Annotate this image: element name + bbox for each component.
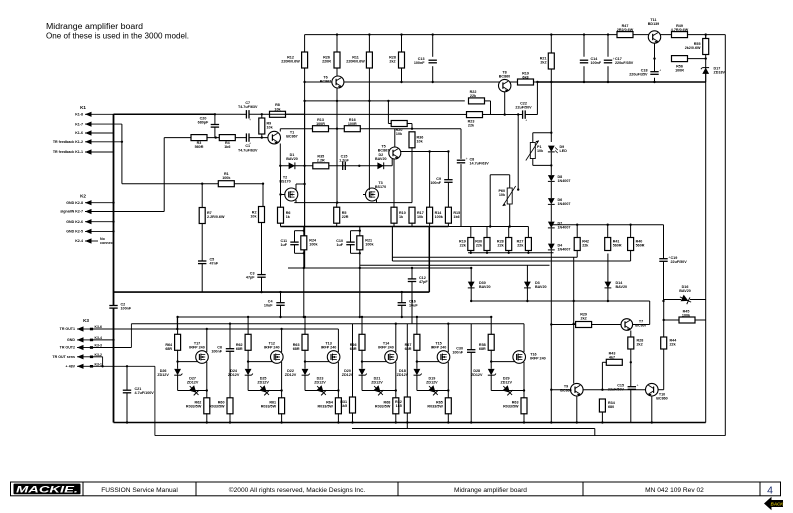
label R19 value [459,240,467,248]
svg-text:IRFP 240: IRFP 240 [431,345,447,349]
node node R66 rail [361,316,363,318]
transistor T3 [366,188,379,201]
label T17 type [189,341,205,349]
wire C17 bot [607,66,609,82]
wire right supply rail [705,35,707,423]
wire R26 top [336,35,338,53]
resistor R21 [548,53,554,69]
svg-text:22k: 22k [460,244,467,248]
node node R62 bus [206,421,208,423]
wire C21 vert [126,366,128,390]
resistor R60 [227,398,233,414]
label R30 value [475,240,483,248]
svg-text:100nF: 100nF [121,307,132,311]
wire C10 bot link [351,252,360,254]
node node R55 bot [705,57,707,59]
node node y101 a [303,100,305,102]
svg-text:K3-4: K3-4 [95,336,102,340]
svg-text:R033/5W: R033/5W [209,405,225,409]
wire P60 top h [490,174,510,176]
svg-text:220uF/35V: 220uF/35V [615,61,634,65]
label R21b value [365,239,374,247]
wire chain seg5 [550,251,552,423]
wire R55 top [705,35,707,39]
label K3 pin text TR OUT1 [60,327,75,331]
label R43 value [609,352,616,360]
svg-text:680: 680 [608,405,614,409]
node node T12 sr [280,389,282,391]
svg-text:IRFP 240: IRFP 240 [189,345,205,349]
wire group top line [448,226,528,228]
node node R67 rail [416,316,418,318]
node node R21 bot [359,252,361,254]
pin K3 stub K3-3 [90,346,93,349]
pin K3 TR OUT2 [77,345,92,350]
label R19 value [522,72,529,80]
wire D24 stem [247,362,249,369]
node node T17 gate [176,360,178,362]
wire R5 top [336,203,338,208]
wire mid bus riser [428,227,430,293]
wire R31 bot [352,413,354,423]
node node R31 bus [351,421,353,423]
wire R43 left [602,361,606,363]
label R35 value [317,155,325,163]
node node T15 sr [447,389,449,391]
svg-text:BC867: BC867 [320,80,331,84]
node bus node R55 [705,33,707,35]
diode D1 [289,162,295,169]
wire R24 main vert upper [303,227,305,236]
node gnd node K2-5 [112,230,114,232]
wire D3 vert [526,265,528,301]
title text [46,22,143,31]
wire P60 top v [509,175,511,188]
wire line y152 [401,151,449,153]
node node y152 a [428,150,430,152]
svg-text:4.7R/0.6W: 4.7R/0.6W [671,28,689,32]
wire R27 top [527,227,529,238]
label K3 pin text GND [67,338,75,342]
label C13 value [414,57,425,65]
svg-text:ZD12V: ZD12V [371,380,383,384]
wire R20 vert [387,101,389,124]
label P1 value [537,145,544,153]
resistor R17 [409,207,415,223]
node node R21 fb [359,267,361,269]
node node R65 bus [447,421,449,423]
node node R21 top [359,230,361,232]
capacitor C30 [467,350,475,353]
wire left vertical bus lower [113,308,115,422]
capacitor C20 [211,125,219,128]
wire R11 drop [368,68,370,191]
wire T5 bot [391,159,393,166]
wire T1 emitter [279,144,281,166]
node node T9 y3237 [573,323,575,325]
diode D19 [426,383,440,397]
wire C10 top link [351,230,360,232]
wire R21 main vert lower [359,250,361,317]
svg-text:BAV20: BAV20 [286,157,298,161]
svg-text:K3-3: K3-3 [95,344,102,348]
node bus node R28 [400,33,402,35]
resistor R34 [599,399,605,412]
resistor R47 [617,32,633,38]
resistor R62 [245,334,251,350]
svg-text:220R/0.6W: 220R/0.6W [346,60,365,64]
footer divider [582,482,584,496]
capacitor C4 [276,303,284,306]
svg-text:T4.7uF/63V: T4.7uF/63V [238,148,258,152]
svg-text:BAV20: BAV20 [679,289,691,293]
resistor R3 [191,135,207,141]
svg-text:1N4007: 1N4007 [558,179,571,183]
node node T12 gate [247,360,249,362]
wire D28 bot [490,375,492,390]
wire chain top [550,82,552,142]
wire C11 bot link [295,252,304,254]
wire rail A y317 [177,316,491,318]
wire D20 bot [361,375,363,390]
node node y82 C17 [607,81,609,83]
wire T1e drop [280,166,282,195]
diode D22 [302,369,310,375]
pin K3 stub K3-2 [90,356,93,359]
wire x3046 lower [304,101,306,268]
label C3 value [246,272,255,280]
svg-text:T4.7uF/63V: T4.7uF/63V [238,105,258,109]
wire C20 branch lower [214,127,216,137]
svg-text:2k2: 2k2 [540,61,546,65]
footer divider [397,482,399,496]
node node TROUT1 riser [176,328,178,330]
label K3 pin text + 48V [66,365,76,369]
node node D1 left [279,165,281,167]
svg-text:1uF: 1uF [280,243,287,247]
label T3 type [375,181,386,189]
svg-text:10k: 10k [417,140,424,144]
diode D29 [501,383,515,397]
wire D16 right [690,299,706,301]
label C16 value [409,300,418,308]
label R60 value [209,401,225,409]
resistor R66 [359,334,365,350]
node bus node R26 [336,33,338,35]
label D24 value [228,369,240,377]
wire R32 vert [406,324,408,398]
diode D8 [548,175,555,181]
wire C14 bot [583,66,585,82]
label C7 value [238,101,258,109]
wire TR OUT1 line [92,328,178,330]
svg-text:22k: 22k [670,343,677,347]
wire rail C corner T13 drain [337,329,339,352]
svg-text:100R: 100R [348,122,357,126]
pin K3 TR OUT sens [77,354,92,359]
label R45 value [682,310,691,318]
wire R26 drop [336,68,338,77]
wire K3 sense row [92,356,103,358]
capacitor C3 [257,275,265,278]
svg-text:100R: 100R [675,69,684,73]
label C12 value [419,276,428,284]
svg-text:BAV20: BAV20 [375,157,387,161]
node node R63 rail [304,316,306,318]
capacitor C16 [398,303,406,306]
svg-text:K3-2: K3-2 [95,353,102,357]
node node R34 bus [601,421,603,423]
svg-text:100nF: 100nF [430,181,441,185]
wire R63 top [304,317,306,335]
label T9 type [560,385,571,393]
label R22 value [470,90,477,98]
wire K1-7 drop [121,124,123,184]
wire C8 drop upper [460,129,462,159]
label T2 type [279,176,290,184]
wire T7 collector h [633,324,650,326]
wire R31 vert [352,324,354,398]
wire +48V feed [92,365,155,367]
svg-text:47pF: 47pF [246,276,255,280]
wire R28 top [401,35,403,53]
wire R62 gate v [247,350,249,362]
resistor R19 [518,79,534,85]
wire D26 stem [177,362,179,369]
wire T9 line [583,389,646,391]
svg-text:GND: GND [67,338,75,342]
wire D14 vert [607,254,609,302]
svg-text:R033/5W: R033/5W [261,405,277,409]
svg-text:1k6: 1k6 [224,145,230,149]
resistor R28 [506,238,512,251]
svg-text:68R: 68R [236,347,243,351]
label R4 value [224,141,230,149]
node node D30 rail [470,300,472,302]
label K2-4 no connect note [100,237,115,245]
potentiometer P60 [503,186,516,206]
svg-text:10k: 10k [274,107,281,111]
node node y1658 mid [358,165,360,167]
wire R5 bot [336,223,338,227]
label R28 value [497,240,505,248]
MACKIE logo [14,484,81,496]
svg-text:K3-6: K3-6 [95,325,102,329]
svg-text:GND K2-6: GND K2-6 [66,220,83,224]
node node R68 bus [395,421,397,423]
svg-text:100R: 100R [316,122,325,126]
node node R3R4 [215,136,217,138]
wire R15 vert lower [447,183,449,208]
svg-text:K2: K2 [80,194,86,199]
wire fb line y2652 [360,264,550,266]
node node T10 bus [651,421,653,423]
label C14 value [591,57,602,65]
node node T15 drain [447,323,449,325]
node node R24 bot [303,252,305,254]
transistor T17 [196,351,209,364]
label D8 value [558,175,571,183]
diode D2 [377,162,383,169]
wire R10 bot [393,223,395,227]
node node R9 top [261,113,263,115]
resistor R30 [484,238,490,251]
label R61s value [261,401,277,409]
svg-text:100nF: 100nF [452,351,463,355]
label C4 value [264,300,274,308]
svg-text:MACKIE.: MACKIE. [16,485,78,496]
label C10 value [336,239,344,247]
label R11 value [346,56,365,64]
wire C16 stem lower [401,306,403,317]
svg-text:R033/5W: R033/5W [318,405,334,409]
node node T2 gate [279,193,281,195]
wire T11 emitter [654,43,656,71]
transistor T2 [285,188,298,201]
node node R32 bus [406,421,408,423]
capacitor C19 [659,256,670,262]
label R55 value [685,42,701,50]
node node T16 gate [490,360,492,362]
capacitor C15 [343,162,346,170]
wire line y101 [305,100,465,102]
wire line y1146 b [249,113,522,115]
svg-text:10uF: 10uF [264,304,273,308]
wire D24 bot [247,375,249,390]
wire input line b [249,137,268,139]
wire C17 drop [607,35,609,57]
wire R66 top [361,317,363,335]
resistor R7 [199,208,205,224]
transistor T15 [437,351,450,364]
node node fb [121,141,123,143]
wire T10 right [658,389,664,391]
label R2 value [250,211,257,219]
transistor T13 [327,351,340,364]
svg-text:100k: 100k [222,176,231,180]
connector K3 [83,318,89,323]
node node R24 top [303,230,305,232]
wire R9 bot [261,134,263,138]
svg-text:22k: 22k [498,244,505,248]
wire R9 top [261,114,263,118]
label C15b value [608,384,625,392]
wire R15 vert [447,152,449,180]
label R29 value [580,313,587,321]
label T6 type [320,76,331,84]
svg-text:14.7uF/63V: 14.7uF/63V [470,162,490,166]
svg-text:22uF/50V: 22uF/50V [515,105,532,109]
label R12 value [281,56,300,64]
svg-text:68R: 68R [479,347,486,351]
label R58 value [479,343,486,351]
wire bottom link tick [406,423,408,429]
wire T14 gate h [362,361,388,363]
wire D18 bot [416,375,418,390]
svg-text:22k: 22k [470,94,477,98]
pin K3 TR OUT1 [77,326,92,331]
resistor R27 [525,238,531,251]
capacitor C15b [628,384,639,390]
svg-text:+: + [466,157,468,161]
label R67 value [405,343,412,351]
node node D14 rail [607,300,609,302]
label C9 value [430,177,441,185]
wire R28 drop [401,68,403,83]
node node R24 fb [303,267,305,269]
resistor R43 [606,359,622,365]
wire R63 bot [523,413,525,422]
resistor R16 [344,126,360,132]
wire R66 gate v [361,350,363,362]
label D17 value [714,67,726,75]
wire line y1146 c [525,114,537,116]
resistor R19 [468,238,474,251]
resistor R55 [703,39,709,55]
wire cell T15 bottom link [417,390,448,392]
diode D21 [371,383,385,397]
svg-text:K1-6: K1-6 [75,131,83,135]
wire line y1287 [280,128,461,130]
wire R42 top [576,225,578,238]
wire rail A left riser [176,317,178,329]
wire rail y82 a [305,81,332,83]
node gnd node K2-8 [112,202,114,204]
wire R67 top [416,317,418,335]
node gnd node K2-6 [112,221,114,223]
wire rail C output [92,328,339,330]
wire R6 top [280,195,282,208]
svg-text:BS170: BS170 [279,180,290,184]
svg-text:10k: 10k [499,193,506,197]
label K1 pin text K1-6 [75,131,83,135]
label D30 value [479,281,491,289]
node node R41 top [607,224,609,226]
svg-text:K3-1: K3-1 [95,362,102,366]
label R10 value [399,211,406,219]
label R63s value [503,401,519,409]
wire T13 gate h [305,361,330,363]
wire K3 GND row [92,339,114,341]
svg-text:100k: 100k [365,243,374,247]
wire T9 left [551,389,570,391]
wire T15 drain [447,324,449,352]
wire R19 bot [470,251,472,253]
wire T13 source [337,362,339,398]
wire R58 top [490,317,492,335]
wire R67 gate v [416,350,418,362]
label R44 value [670,339,678,347]
wire bottom ground bus [114,422,706,424]
node node R28 [508,252,510,254]
wire R22 drop [490,101,492,115]
svg-text:IRFP 240: IRFP 240 [378,345,394,349]
node node chain P1 top [550,132,552,134]
resistor R9 [259,118,265,134]
wire R64 top [177,317,179,335]
label K1 pin text K1-7 [75,122,83,126]
resistor R21b [357,236,363,250]
wire C6 vert lower [229,352,231,399]
node node y101 c [368,100,370,102]
resistor R58 [488,334,494,350]
label D29 value [500,376,512,384]
svg-text:IRFP 240: IRFP 240 [530,357,546,361]
wire R40 bot [630,251,632,262]
pin K1 K1-8 [85,112,114,117]
node node y1287 a [336,128,338,130]
capacitor C8 [457,157,468,163]
